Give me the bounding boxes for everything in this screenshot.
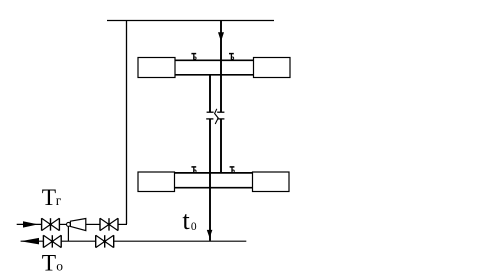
elevator cone xyxy=(70,219,85,231)
air vent on R2 left xyxy=(191,167,196,173)
svg-text:0: 0 xyxy=(191,221,197,233)
valve V1 supply xyxy=(42,218,60,230)
elevator inlet node circle xyxy=(67,222,71,226)
wire: valve V2 to left riser corner xyxy=(118,223,127,225)
radiator R2 right section xyxy=(253,172,290,192)
valve V3 return xyxy=(43,235,61,247)
radiator R1 top tube xyxy=(175,59,254,61)
label Tg supply xyxy=(42,185,62,211)
wire: elevator to valve V2 xyxy=(86,223,100,225)
svg-text:г: г xyxy=(56,193,62,208)
wire: left drop pipe upper segment xyxy=(209,75,211,112)
wire: main riser upper segment xyxy=(220,21,222,113)
svg-text:t: t xyxy=(182,205,190,235)
wire: return main xyxy=(114,240,247,242)
radiator R1 left section xyxy=(138,58,175,78)
label To return xyxy=(42,251,63,277)
flow arrow supply inlet xyxy=(23,221,38,227)
air vent on R1 left xyxy=(191,54,196,60)
wire: return outlet stub xyxy=(21,240,44,242)
wire: elevator bypass drop xyxy=(67,226,69,241)
svg-text:о: о xyxy=(56,259,63,274)
pipe break symbol xyxy=(206,109,224,124)
svg-text:Т: Т xyxy=(42,251,56,277)
wire: left drop pipe lower segment to return xyxy=(209,119,211,240)
wire: valve V1 to elevator xyxy=(59,223,66,225)
radiator R1 right section xyxy=(254,58,291,78)
wire: top supply header xyxy=(107,20,274,22)
radiator R2 top tube xyxy=(175,172,253,174)
radiator R2 bottom tube xyxy=(175,187,253,189)
wire: left riser to elevator xyxy=(126,21,128,225)
flow arrow on main riser xyxy=(218,32,224,41)
air vent on R2 right xyxy=(230,167,235,173)
wire: valve V3 to valve V4 xyxy=(61,240,95,242)
flow arrow return outlet xyxy=(21,238,39,245)
label t0 xyxy=(182,205,197,235)
svg-text:Т: Т xyxy=(42,185,56,211)
valve V4 return xyxy=(96,235,114,247)
air vent on R1 right xyxy=(229,54,234,60)
wire: supply inlet stub xyxy=(17,223,42,225)
radiator R2 left section xyxy=(138,172,175,192)
wire: main riser lower segment xyxy=(220,119,222,173)
radiator R1 bottom tube xyxy=(175,74,254,76)
flow arrow into return main xyxy=(207,230,213,238)
valve V2 supply to riser xyxy=(100,218,118,230)
